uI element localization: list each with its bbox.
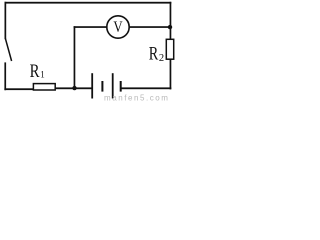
junction node B (on right rail above R2): [168, 25, 172, 29]
wire right lower (R2 down to bottom-right corner): [170, 59, 172, 89]
svg-text:R: R: [149, 43, 159, 64]
voltmeter V (circle): [107, 16, 129, 38]
wire right upper (top-right corner down to R2): [170, 2, 172, 40]
battery cell 2 long plate (+): [112, 73, 114, 98]
background: [0, 0, 175, 101]
wire voltmeter horizontal left (corner to voltmeter circle): [74, 26, 107, 28]
resistor R1 (box): [33, 84, 55, 90]
battery cell 1 short plate (-): [101, 81, 103, 92]
wire left lower (below switch to bottom-left corner): [4, 62, 6, 90]
battery cell 2 short plate (-): [120, 81, 122, 92]
wire bottom-left (corner to resistor R1): [4, 88, 33, 90]
switch S (open blade): [5, 39, 11, 61]
wire left upper (top corner down to switch contact): [5, 2, 7, 39]
wire bottom (R1 to battery): [56, 87, 92, 89]
svg-text:2: 2: [159, 53, 164, 64]
wire voltmeter horizontal right (circle to right rail): [130, 26, 171, 28]
resistor R2 (box): [166, 39, 173, 59]
svg-text:manfen5.com: manfen5.com: [104, 93, 170, 101]
wire bottom-right (battery to bottom-right corner): [121, 87, 171, 89]
wire top (from top-left corner to top-right corner): [5, 2, 172, 4]
svg-text:V: V: [113, 19, 123, 37]
svg-text:1: 1: [40, 70, 45, 80]
junction node A (voltmeter tap between R1 and battery): [72, 86, 76, 90]
battery cell 1 long plate (+): [91, 73, 93, 98]
svg-text:R: R: [30, 60, 40, 81]
wire voltmeter vertical (node A up to voltmeter line): [74, 26, 76, 88]
